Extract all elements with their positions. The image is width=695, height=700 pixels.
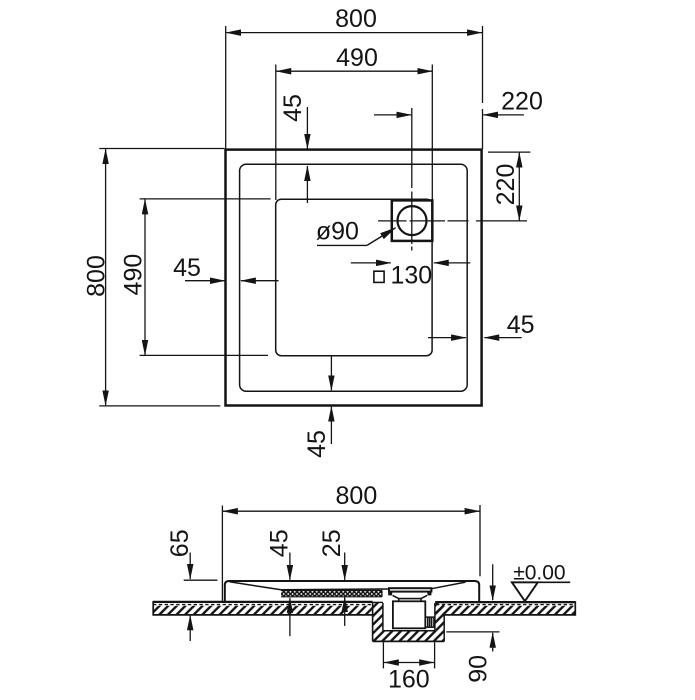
dim 160 <box>383 642 434 668</box>
pit right wall hatched <box>435 603 444 631</box>
pit bottom hatched <box>373 631 445 642</box>
dim 220 right vertical <box>488 152 530 220</box>
drain plate end caps <box>388 591 392 595</box>
drain centerline horizontal <box>378 220 527 222</box>
tray shell section <box>225 581 479 601</box>
svg-text:490: 490 <box>119 254 147 296</box>
mortar bed crosshatch band <box>281 590 382 596</box>
label square 130 <box>374 271 384 282</box>
svg-text:90: 90 <box>465 655 493 683</box>
rim inner rectangle <box>240 164 468 391</box>
dim 800 left <box>99 149 224 406</box>
drain centerline vertical <box>411 108 413 251</box>
drain outlet stub <box>425 617 434 627</box>
drain plate <box>389 588 431 591</box>
drain square 130 <box>392 200 433 241</box>
pit outline <box>373 602 445 642</box>
dim 45 section (rotated) <box>289 553 291 637</box>
dim 45 bottom (rotated) <box>330 357 332 445</box>
svg-text:220: 220 <box>501 88 543 116</box>
dim 45 right <box>428 337 522 339</box>
svg-text:800: 800 <box>82 255 110 297</box>
dim 45 top (rotated) <box>306 107 308 203</box>
floor slab left hatched <box>153 606 373 614</box>
drain funnel <box>393 595 428 601</box>
svg-text:490: 490 <box>336 44 378 72</box>
tray floor cut lines <box>230 582 466 590</box>
floor slab right hatched <box>435 606 575 614</box>
svg-text:±0.00: ±0.00 <box>513 562 565 585</box>
dim 490 top <box>276 65 433 201</box>
dim 220 top right <box>374 114 524 116</box>
drain trap body <box>393 601 425 628</box>
svg-text:ø90: ø90 <box>316 218 359 246</box>
dim 800 section <box>222 505 480 601</box>
svg-text:130: 130 <box>390 262 432 290</box>
svg-text:45: 45 <box>303 430 331 458</box>
svg-text:800: 800 <box>335 5 377 33</box>
svg-text:45: 45 <box>507 311 535 339</box>
drain circle o90 <box>398 206 427 235</box>
dim 45 left <box>185 280 279 282</box>
svg-text:45: 45 <box>265 529 293 557</box>
svg-text:45: 45 <box>279 94 307 122</box>
base (floor) rectangle 490x490 <box>276 199 432 356</box>
pit left wall hatched <box>373 603 383 631</box>
svg-text:45: 45 <box>173 254 201 282</box>
svg-text:25: 25 <box>318 529 346 557</box>
dim 90 (rotated) <box>446 564 499 651</box>
dim 25 section (rotated) <box>344 553 346 626</box>
dim 65 (rotated) <box>184 553 218 642</box>
dim 490 left <box>140 199 271 356</box>
outer square (tray outline 800x800) <box>226 150 482 406</box>
svg-text:800: 800 <box>336 482 378 510</box>
svg-text:220: 220 <box>492 164 520 206</box>
svg-text:65: 65 <box>166 529 194 557</box>
dim 800 top <box>226 26 483 149</box>
svg-text:160: 160 <box>388 666 430 694</box>
